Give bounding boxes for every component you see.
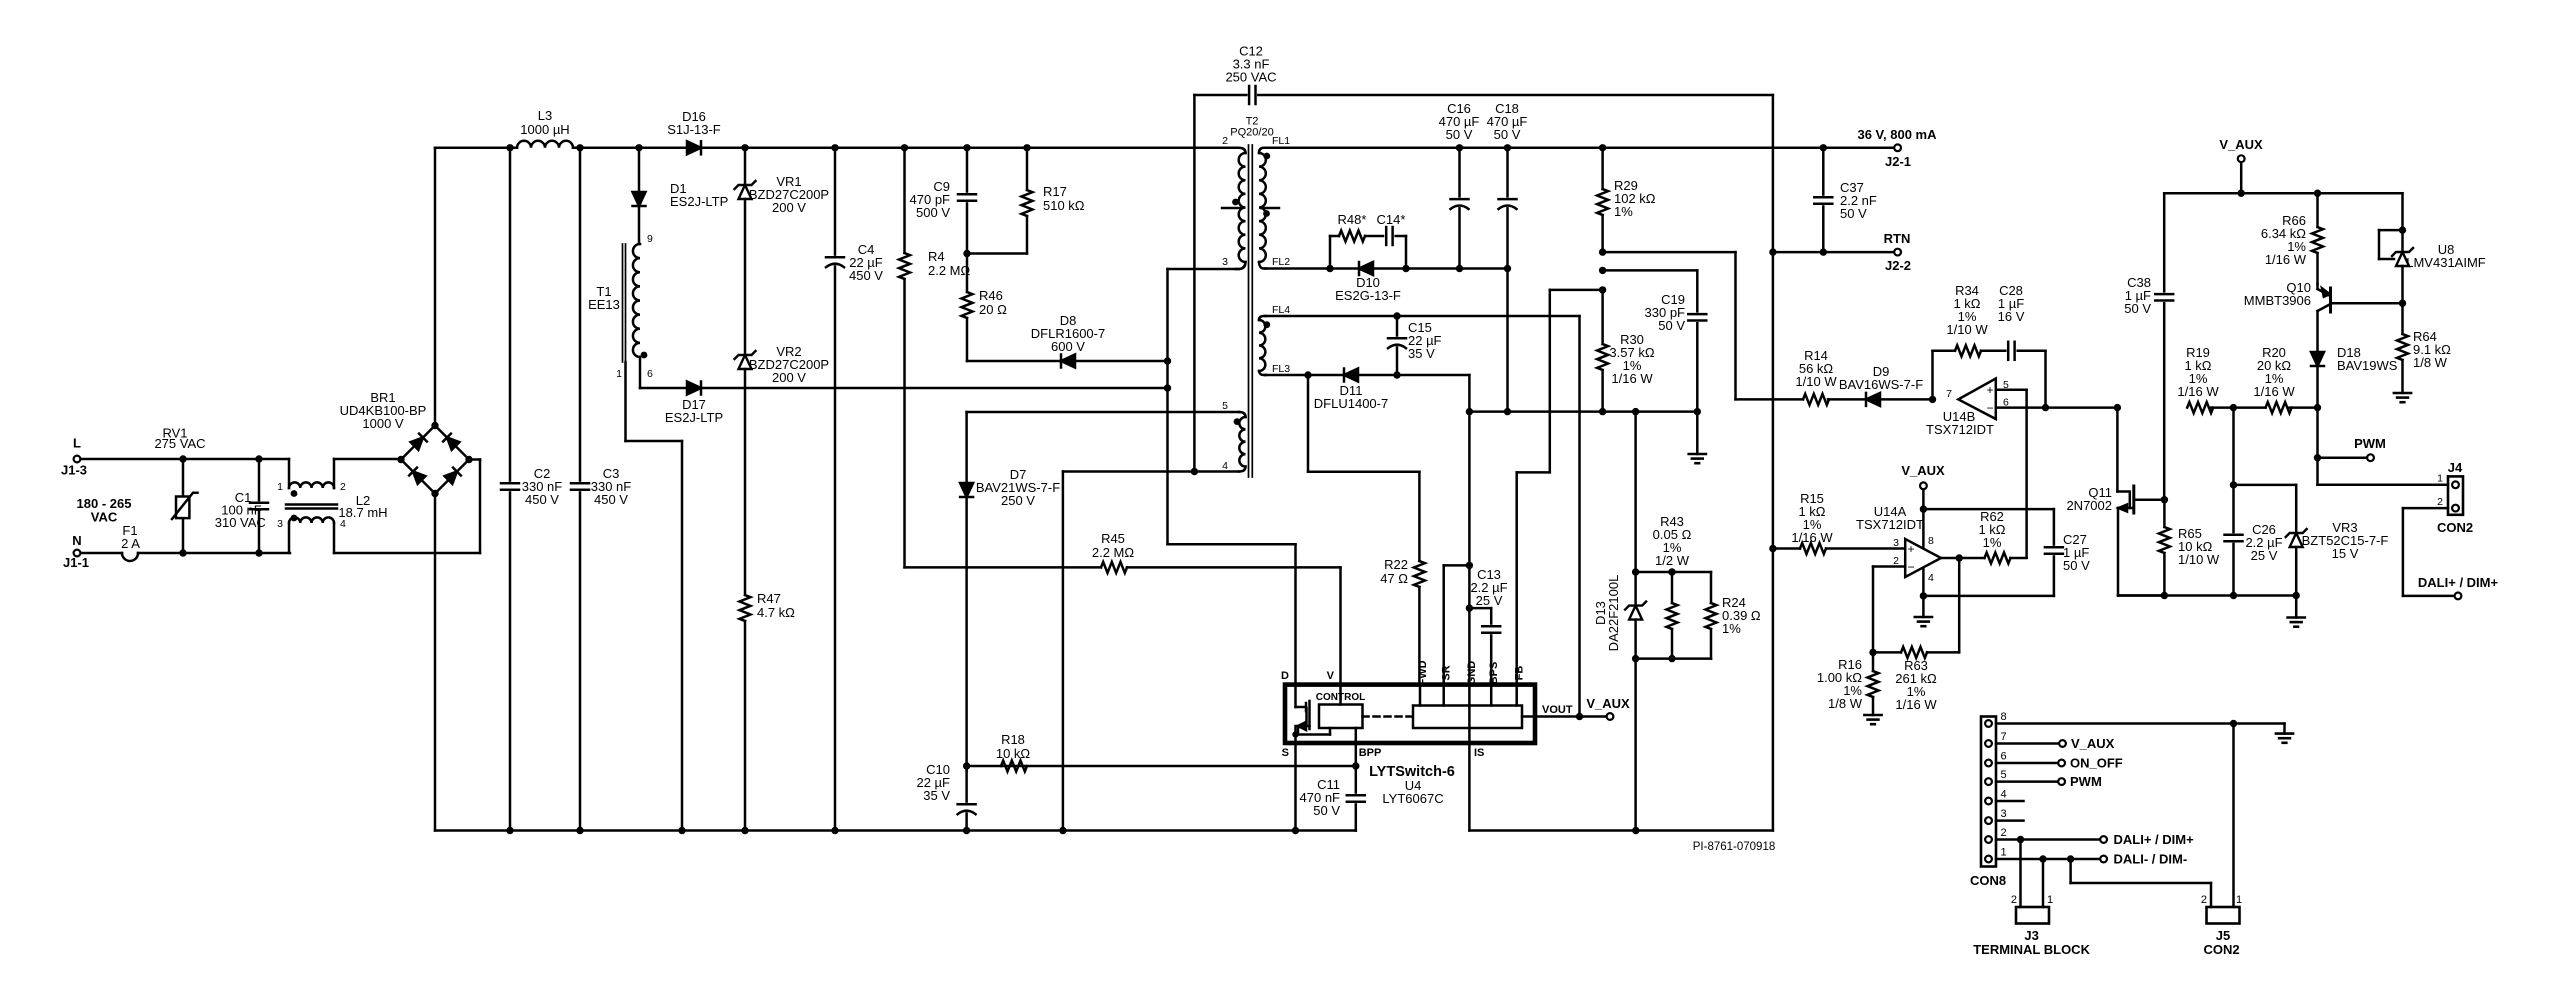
svg-text:25 V: 25 V bbox=[1476, 593, 1503, 608]
wire J4 pin2 to DALI+ bbox=[2403, 507, 2448, 510]
svg-text:50 V: 50 V bbox=[1658, 318, 1685, 333]
svg-text:1/16 W: 1/16 W bbox=[2265, 252, 2307, 267]
wire U14A pin2 bbox=[1873, 565, 1905, 568]
transistor Q10 bbox=[2329, 288, 2332, 312]
ground CON8 pin8 bbox=[2276, 732, 2293, 735]
svg-text:N: N bbox=[72, 533, 81, 548]
svg-text:200 V: 200 V bbox=[772, 200, 806, 215]
wire FB node bbox=[1599, 286, 1606, 293]
svg-text:1000 V: 1000 V bbox=[362, 416, 404, 431]
svg-text:R17: R17 bbox=[1043, 184, 1067, 199]
resistor R14 bbox=[1803, 394, 1829, 405]
svg-text:510 kΩ: 510 kΩ bbox=[1043, 198, 1085, 213]
svg-text:1/2 W: 1/2 W bbox=[1655, 553, 1690, 568]
resistor R64 bbox=[2401, 303, 2404, 334]
wire FL3 node down to FWD bbox=[1307, 375, 1310, 472]
ground R16 bbox=[1864, 714, 1881, 717]
wire RTN vertical bbox=[1772, 95, 1775, 831]
svg-text:6: 6 bbox=[2001, 751, 2007, 763]
ground U14A bbox=[1915, 616, 1932, 619]
svg-text:500 V: 500 V bbox=[916, 205, 950, 220]
svg-text:1/16 W: 1/16 W bbox=[2177, 384, 2219, 399]
resistor R62 bbox=[1959, 557, 1984, 560]
wire L input bbox=[82, 458, 289, 461]
wire bridge plus to rail bbox=[434, 148, 437, 426]
svg-text:V_AUX: V_AUX bbox=[1586, 696, 1630, 711]
svg-text:CON2: CON2 bbox=[2203, 942, 2239, 957]
svg-text:FL1: FL1 bbox=[1272, 135, 1290, 147]
zener VR3 bbox=[2234, 484, 2297, 487]
svg-text:2 A: 2 A bbox=[121, 536, 140, 551]
wire T1 pin1 down bbox=[624, 362, 627, 441]
transformer T2 primary winding pins 2-3 bbox=[1236, 148, 1246, 153]
svg-text:3: 3 bbox=[2001, 808, 2007, 820]
wire FL2 return bbox=[1265, 267, 1508, 270]
svg-text:DALI+ / DIM+: DALI+ / DIM+ bbox=[2418, 575, 2499, 590]
resistor R65 bbox=[2159, 527, 2170, 553]
svg-text:IS: IS bbox=[1474, 747, 1484, 759]
capacitor C12 bbox=[1194, 94, 1249, 97]
svg-text:600 V: 600 V bbox=[1051, 339, 1085, 354]
diode D10 bbox=[1359, 262, 1373, 275]
capacitor C19 bbox=[1696, 270, 1699, 314]
wire right gnd rail bbox=[2118, 594, 2296, 597]
svg-text:50 V: 50 V bbox=[2063, 558, 2090, 573]
svg-text:+: + bbox=[1907, 542, 1914, 556]
svg-text:4: 4 bbox=[1928, 572, 1934, 584]
wire FL3 bbox=[1265, 374, 1469, 377]
terminal PWM bbox=[2367, 454, 2374, 461]
wire bridge minus to bottom rail bbox=[434, 494, 437, 831]
capacitor C38 bbox=[2163, 193, 2166, 294]
svg-text:50 V: 50 V bbox=[1313, 803, 1340, 818]
resistor R43 bbox=[1671, 572, 1674, 603]
wire to J4 pin1 bbox=[2316, 408, 2319, 485]
diode D8 bbox=[967, 360, 1061, 363]
capacitor C16 bbox=[1458, 148, 1461, 199]
svg-text:2: 2 bbox=[2201, 894, 2207, 906]
svg-text:PWM: PWM bbox=[2070, 774, 2102, 789]
svg-text:BAV16WS-7-F: BAV16WS-7-F bbox=[1839, 377, 1923, 392]
wire U14B pin5 bbox=[1996, 389, 2027, 392]
zener VR1 bbox=[744, 148, 747, 185]
wire U14A output bbox=[1941, 557, 1959, 560]
svg-text:50 V: 50 V bbox=[1494, 127, 1521, 142]
resistor R22 bbox=[1418, 472, 1421, 561]
svg-text:C14*: C14* bbox=[1377, 212, 1406, 227]
wire D7 to T2 pin5 bbox=[967, 411, 1239, 414]
svg-text:1/16 W: 1/16 W bbox=[1611, 371, 1653, 386]
wire S pin bbox=[1294, 743, 1297, 831]
wire RTN net bbox=[1599, 248, 1606, 255]
capacitor C27 bbox=[2053, 509, 2056, 547]
svg-text:R18: R18 bbox=[1001, 732, 1025, 747]
svg-text:9: 9 bbox=[647, 233, 653, 245]
svg-text:VAC: VAC bbox=[91, 510, 118, 525]
resistor R46 bbox=[966, 254, 969, 293]
svg-text:R48*: R48* bbox=[1338, 212, 1367, 227]
svg-text:FB: FB bbox=[1514, 666, 1526, 681]
svg-text:BPS: BPS bbox=[1488, 662, 1500, 685]
mosfet Q11 bbox=[2114, 404, 2121, 411]
svg-text:VOUT: VOUT bbox=[1542, 704, 1573, 716]
svg-text:8: 8 bbox=[1928, 535, 1934, 547]
svg-text:DALI- / DIM-: DALI- / DIM- bbox=[2114, 852, 2188, 867]
svg-text:3: 3 bbox=[1893, 537, 1899, 549]
connector J3 bbox=[2019, 840, 2022, 908]
svg-text:D: D bbox=[1281, 670, 1289, 682]
svg-text:450 V: 450 V bbox=[849, 268, 883, 283]
zener VR2 bbox=[739, 355, 752, 369]
svg-text:7: 7 bbox=[2001, 731, 2007, 743]
svg-text:S: S bbox=[1282, 747, 1289, 759]
svg-text:6: 6 bbox=[647, 368, 653, 380]
svg-text:LYT6067C: LYT6067C bbox=[1382, 791, 1443, 806]
diode D7 bbox=[965, 412, 968, 483]
svg-text:4: 4 bbox=[1222, 460, 1228, 472]
svg-text:L: L bbox=[73, 436, 81, 451]
transformer T2 core bbox=[1248, 145, 1250, 477]
svg-text:J3: J3 bbox=[2024, 928, 2038, 943]
fuse F1 bbox=[82, 552, 122, 555]
svg-text:+: + bbox=[1986, 383, 1993, 397]
resistor R17 bbox=[1026, 148, 1029, 190]
wire C12 left vertical bbox=[1193, 95, 1196, 472]
svg-text:LMV431AIMF: LMV431AIMF bbox=[2406, 255, 2486, 270]
svg-text:R22: R22 bbox=[1384, 557, 1408, 572]
svg-text:8: 8 bbox=[2001, 711, 2007, 723]
wire sense top bbox=[1634, 412, 1637, 572]
svg-text:1%: 1% bbox=[1983, 535, 2002, 550]
wire CON8 pin8 to ground bbox=[1996, 722, 2285, 725]
svg-text:1%: 1% bbox=[1614, 204, 1633, 219]
svg-text:TSX712IDT: TSX712IDT bbox=[1856, 517, 1924, 532]
svg-text:200 V: 200 V bbox=[772, 370, 806, 385]
capacitor C2 bbox=[509, 148, 512, 484]
svg-text:5: 5 bbox=[2001, 769, 2007, 781]
svg-text:MMBT3906: MMBT3906 bbox=[2244, 293, 2311, 308]
inductor L3 bbox=[517, 141, 573, 148]
svg-text:36 V, 800 mA: 36 V, 800 mA bbox=[1857, 127, 1937, 142]
wire 36V rail bbox=[1265, 147, 1893, 150]
svg-text:7: 7 bbox=[1946, 388, 1952, 400]
wire R19 R20 bbox=[2211, 406, 2266, 409]
capacitor C11 bbox=[1352, 762, 1359, 769]
wire FB pin path bbox=[1515, 472, 1518, 684]
resistor R47 bbox=[740, 595, 751, 621]
svg-text:3: 3 bbox=[277, 518, 283, 530]
capacitor C9 bbox=[966, 148, 969, 195]
transformer T2 primary winding pins 5-4 bbox=[1239, 412, 1246, 417]
wire output to R63 bbox=[1958, 558, 1961, 652]
resistor R4 bbox=[903, 148, 906, 253]
svg-text:V_AUX: V_AUX bbox=[2219, 137, 2263, 152]
resistor R66 bbox=[2316, 193, 2319, 227]
svg-text:1/16 W: 1/16 W bbox=[2253, 384, 2295, 399]
resistor R20 bbox=[2266, 402, 2292, 413]
svg-text:18.7 mH: 18.7 mH bbox=[338, 505, 387, 520]
svg-text:1/10 W: 1/10 W bbox=[1795, 374, 1837, 389]
svg-text:ON_OFF: ON_OFF bbox=[2070, 756, 2123, 771]
svg-text:5: 5 bbox=[1222, 400, 1228, 412]
svg-text:RTN: RTN bbox=[1884, 231, 1911, 246]
svg-text:ES2J-LTP: ES2J-LTP bbox=[670, 194, 728, 209]
resistor R63 bbox=[1901, 647, 1927, 658]
svg-text:1: 1 bbox=[2236, 894, 2242, 906]
capacitor C10 bbox=[965, 766, 968, 804]
svg-text:FL4: FL4 bbox=[1272, 304, 1290, 316]
transformer T2 secondary FL4-FL3 bbox=[1259, 316, 1266, 320]
svg-text:SR: SR bbox=[1441, 665, 1453, 680]
diode D1 bbox=[638, 148, 641, 190]
wire U14A pin4 ground bbox=[1922, 568, 1925, 596]
wire N input bbox=[138, 552, 290, 555]
capacitor C18 bbox=[1506, 148, 1509, 199]
wire CON8 pin6 ON_OFF bbox=[1996, 762, 2057, 765]
resistor R24 bbox=[1710, 572, 1713, 603]
svg-text:J4: J4 bbox=[2448, 460, 2463, 475]
svg-text:GND: GND bbox=[1466, 661, 1478, 686]
wire C9 R17 node bbox=[967, 252, 1027, 255]
diode D16 bbox=[687, 141, 701, 154]
svg-text:275 VAC: 275 VAC bbox=[154, 436, 205, 451]
IC U4 pin stubs bbox=[1339, 685, 1342, 705]
svg-text:EE13: EE13 bbox=[588, 297, 620, 312]
svg-text:10 kΩ: 10 kΩ bbox=[996, 746, 1031, 761]
svg-text:V: V bbox=[1327, 670, 1335, 682]
svg-text:FL2: FL2 bbox=[1272, 256, 1290, 268]
IC U4 inner block bbox=[1413, 706, 1522, 729]
diode D9 bbox=[1866, 393, 1880, 406]
op-amp U14A bbox=[1905, 539, 1941, 577]
wire CON8 pin2 DALI+ bbox=[1996, 838, 2099, 841]
svg-text:1/8 W: 1/8 W bbox=[1828, 696, 1863, 711]
svg-text:S1J-13-F: S1J-13-F bbox=[667, 122, 721, 137]
svg-text:450 V: 450 V bbox=[594, 492, 628, 507]
svg-text:DALI+ / DIM+: DALI+ / DIM+ bbox=[2114, 832, 2195, 847]
terminal DALI+ J4 bbox=[2455, 593, 2462, 600]
svg-text:1: 1 bbox=[616, 368, 622, 380]
svg-text:1: 1 bbox=[2437, 473, 2443, 485]
wire top rail left bbox=[435, 147, 517, 150]
svg-text:3: 3 bbox=[1222, 256, 1228, 268]
capacitor C3 bbox=[579, 148, 582, 484]
wire CON8 pin3 stub bbox=[1996, 819, 2024, 822]
svg-text:310 VAC: 310 VAC bbox=[215, 515, 266, 530]
svg-text:−: − bbox=[1986, 401, 1993, 415]
svg-text:−: − bbox=[1907, 560, 1914, 574]
svg-text:35 V: 35 V bbox=[1408, 346, 1435, 361]
svg-text:2: 2 bbox=[2437, 496, 2443, 508]
wire rail L3 to D16 bbox=[573, 147, 687, 150]
svg-text:2.2 MΩ: 2.2 MΩ bbox=[1092, 545, 1135, 560]
svg-text:250 VAC: 250 VAC bbox=[1225, 70, 1276, 85]
wire sense bottom bbox=[1636, 657, 1711, 660]
diode D18 bbox=[2316, 351, 2319, 354]
diode D17 bbox=[687, 382, 701, 395]
ground R64 bbox=[2394, 392, 2411, 395]
terminal J2-1 36V bbox=[1894, 144, 1901, 151]
svg-text:50 V: 50 V bbox=[1446, 127, 1473, 142]
svg-text:47 Ω: 47 Ω bbox=[1380, 571, 1408, 586]
svg-text:CON8: CON8 bbox=[1970, 873, 2006, 888]
wire CON8 pin4 stub bbox=[1996, 800, 2024, 803]
svg-text:20 Ω: 20 Ω bbox=[979, 302, 1007, 317]
terminal L J1-3 bbox=[74, 456, 81, 463]
diode D11 bbox=[1344, 369, 1358, 382]
wire IS return bbox=[1468, 743, 1471, 831]
svg-text:35 V: 35 V bbox=[923, 788, 950, 803]
svg-text:1: 1 bbox=[2047, 894, 2053, 906]
capacitor C26 bbox=[2232, 408, 2235, 485]
bridge rectifier BR1 bbox=[401, 426, 435, 460]
wire secondary return 411 bbox=[1468, 375, 1471, 412]
diode D13 bbox=[1634, 572, 1637, 606]
wire U14B pin6 out bbox=[1996, 406, 2118, 409]
terminal V_AUX vout bbox=[1607, 713, 1614, 720]
terminal N J1-1 bbox=[74, 550, 81, 557]
resistor R18 bbox=[967, 765, 1356, 768]
wire T2 pin3 to drain node bbox=[1168, 268, 1240, 271]
svg-text:50 V: 50 V bbox=[2124, 301, 2151, 316]
wire L2 to bridge bbox=[334, 458, 401, 461]
wire bottom rail bbox=[435, 829, 1356, 832]
wire R15 bbox=[1769, 545, 1776, 552]
svg-text:CON2: CON2 bbox=[2437, 520, 2473, 535]
svg-text:PWM: PWM bbox=[2354, 436, 2386, 451]
svg-text:1/10 W: 1/10 W bbox=[1946, 322, 1988, 337]
svg-text:450 V: 450 V bbox=[525, 492, 559, 507]
svg-text:DFLU1400-7: DFLU1400-7 bbox=[1314, 396, 1388, 411]
resistor R19 bbox=[2187, 402, 2213, 413]
ground VR3 bbox=[2295, 596, 2298, 618]
IC U4 control box bbox=[1319, 705, 1363, 729]
svg-text:PI-8761-070918: PI-8761-070918 bbox=[1693, 841, 1775, 853]
wire VOUT to V_AUX bbox=[1535, 715, 1605, 718]
resistor R30 bbox=[1597, 344, 1608, 370]
svg-text:2: 2 bbox=[2011, 894, 2017, 906]
svg-text:FWD: FWD bbox=[1417, 660, 1429, 685]
svg-text:2: 2 bbox=[340, 481, 346, 493]
wire FL4 to VAUX vertical bbox=[1265, 315, 1580, 318]
wire C19 top bbox=[1599, 267, 1606, 274]
feedback R34 C28 loop bbox=[1929, 396, 1936, 403]
svg-text:2: 2 bbox=[1222, 135, 1228, 147]
svg-text:J1-3: J1-3 bbox=[61, 463, 87, 478]
wire BPS jog bbox=[1469, 607, 1491, 610]
wire V_AUX U14A supply bbox=[1920, 482, 1927, 489]
svg-text:J2-1: J2-1 bbox=[1885, 154, 1911, 169]
svg-text:R47: R47 bbox=[757, 591, 781, 606]
svg-text:1/16 W: 1/16 W bbox=[1791, 530, 1833, 545]
svg-text:V_AUX: V_AUX bbox=[1901, 463, 1945, 478]
svg-text:1%: 1% bbox=[1722, 621, 1741, 636]
svg-text:ES2G-13-F: ES2G-13-F bbox=[1335, 288, 1401, 303]
capacitor C1 bbox=[258, 459, 261, 503]
svg-text:L3: L3 bbox=[538, 108, 552, 123]
svg-text:2.2 MΩ: 2.2 MΩ bbox=[928, 263, 971, 278]
wire GND pin vertical bbox=[1468, 412, 1471, 685]
wire drain node vertical bbox=[1166, 269, 1169, 544]
wire RTN to J2-2 bbox=[1773, 251, 1893, 254]
wire T1 pin6 to D17 bbox=[639, 357, 642, 388]
svg-text:J1-1: J1-1 bbox=[63, 555, 89, 570]
wire VAUX top right bbox=[2238, 155, 2245, 162]
svg-text:50 V: 50 V bbox=[1840, 206, 1867, 221]
svg-text:FL3: FL3 bbox=[1272, 363, 1290, 375]
op-amp U14B bbox=[1958, 379, 1996, 420]
svg-text:J5: J5 bbox=[2216, 928, 2230, 943]
svg-text:J2-2: J2-2 bbox=[1885, 258, 1911, 273]
svg-text:1: 1 bbox=[277, 481, 283, 493]
resistor R16 bbox=[1872, 652, 1875, 671]
transformer T2 secondary FL1-FL2 bbox=[1259, 148, 1266, 153]
wire drain to IC D pin bbox=[1168, 543, 1296, 546]
snubber R48 C14 bbox=[1329, 236, 1332, 269]
svg-text:1000 µH: 1000 µH bbox=[520, 122, 569, 137]
svg-text:BPP: BPP bbox=[1359, 747, 1382, 759]
wire rail D16 to T2 pin2 bbox=[745, 147, 1236, 150]
wire SR jog bbox=[1444, 564, 1470, 567]
shunt ref U8 bbox=[2401, 193, 2404, 252]
connector J4 bbox=[2448, 476, 2463, 514]
IC U4 LYTSwitch-6 box bbox=[1285, 685, 1535, 743]
svg-text:R46: R46 bbox=[979, 288, 1003, 303]
wire CON8 pin1 DALI- bbox=[1996, 858, 2099, 861]
svg-text:1: 1 bbox=[2001, 847, 2007, 859]
terminal J2-2 RTN bbox=[1894, 249, 1901, 256]
wire PWM bbox=[2314, 454, 2321, 461]
capacitor C13 bbox=[1490, 608, 1493, 626]
wire CON8 pin7 V_AUX bbox=[1996, 742, 2058, 745]
wire pin4 C12 node bbox=[1063, 470, 1239, 473]
ground secondary return bbox=[1696, 412, 1699, 454]
capacitor C15 bbox=[1396, 316, 1399, 338]
wire N to bridge bbox=[334, 552, 480, 555]
svg-text:TSX712IDT: TSX712IDT bbox=[1926, 422, 1994, 437]
svg-text:PQ20/20: PQ20/20 bbox=[1230, 127, 1273, 139]
svg-text:25 V: 25 V bbox=[2251, 548, 2278, 563]
svg-text:1/16 W: 1/16 W bbox=[1895, 697, 1937, 712]
svg-text:4.7 kΩ: 4.7 kΩ bbox=[757, 605, 795, 620]
capacitor C37 bbox=[1822, 148, 1825, 198]
svg-text:ES2J-LTP: ES2J-LTP bbox=[665, 410, 723, 425]
wire CON8 pin5 PWM bbox=[1996, 780, 2057, 783]
svg-text:16 V: 16 V bbox=[1998, 309, 2025, 324]
svg-text:15 V: 15 V bbox=[2332, 546, 2359, 561]
capacitor C4 bbox=[834, 148, 837, 257]
svg-text:DA22F2100L: DA22F2100L bbox=[1606, 575, 1621, 652]
transformer T1 bbox=[622, 244, 624, 362]
varistor RV1 bbox=[182, 459, 185, 497]
svg-text:1/8 W: 1/8 W bbox=[2413, 355, 2448, 370]
resistor R45 bbox=[905, 566, 1102, 569]
inductor L2 common-mode choke bbox=[288, 459, 291, 488]
svg-text:R45: R45 bbox=[1101, 531, 1125, 546]
svg-text:2: 2 bbox=[2001, 827, 2007, 839]
svg-text:1/10 W: 1/10 W bbox=[2178, 552, 2220, 567]
connector CON8 bbox=[1981, 717, 1996, 867]
svg-text:BAV19WS: BAV19WS bbox=[2337, 358, 2398, 373]
svg-text:4: 4 bbox=[2001, 789, 2007, 801]
connector J5 bbox=[2069, 859, 2072, 883]
svg-text:2N7002: 2N7002 bbox=[2066, 498, 2112, 513]
svg-text:2: 2 bbox=[1893, 555, 1899, 567]
svg-text:R4: R4 bbox=[928, 249, 945, 264]
resistor R29 bbox=[1601, 148, 1604, 189]
IC U4 internal mosfet bbox=[1294, 685, 1297, 707]
svg-text:TERMINAL BLOCK: TERMINAL BLOCK bbox=[1973, 942, 2090, 957]
